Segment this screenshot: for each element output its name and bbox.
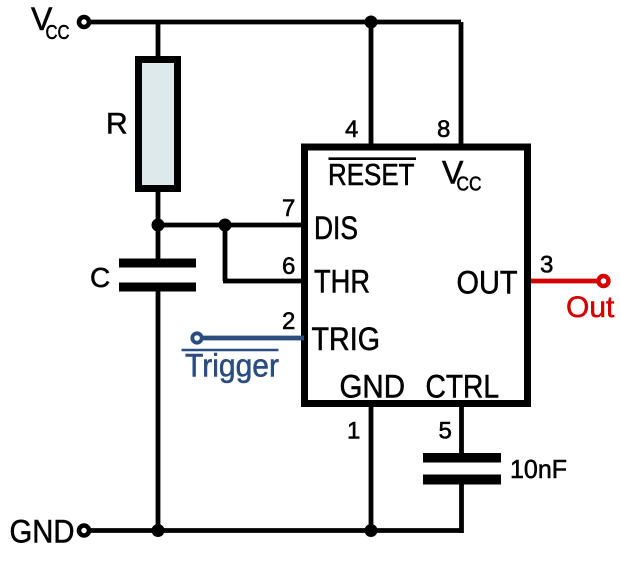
svg-text:R: R: [106, 108, 128, 141]
capacitor C: [119, 259, 196, 292]
svg-text:DIS: DIS: [314, 210, 358, 246]
svg-text:GND: GND: [340, 369, 406, 405]
wire VCC to resistor: [156, 22, 161, 60]
svg-text:THR: THR: [314, 264, 370, 300]
svg-text:RESET: RESET: [328, 158, 415, 192]
wire OUT output: [531, 279, 598, 284]
terminal Out: [599, 276, 609, 286]
node junction top: [365, 16, 378, 29]
node junction R-C: [152, 219, 165, 232]
wire C2 to ground rail: [459, 482, 464, 533]
pin VCC label: [442, 155, 482, 196]
op IC U1 555 box: [305, 147, 528, 404]
svg-text:GND: GND: [10, 514, 75, 550]
svg-text:7: 7: [282, 195, 295, 222]
svg-text:OUT: OUT: [457, 265, 518, 301]
wire pin8 up: [459, 22, 464, 147]
wire DIS: [158, 223, 304, 228]
wire pin4 up: [369, 22, 374, 147]
wire THR: [223, 225, 304, 281]
svg-text:2: 2: [282, 308, 295, 335]
node junction gnd-pin1: [365, 524, 378, 537]
wire TRIG input: [202, 336, 304, 341]
svg-text:Trigger: Trigger: [185, 348, 279, 384]
wire top rail: [91, 20, 461, 25]
wire pin1 down: [369, 403, 374, 531]
resistor R: [139, 60, 178, 189]
node Trigger label: [182, 348, 280, 384]
wire pin5 down: [459, 403, 464, 456]
node VCC label: [31, 1, 70, 44]
svg-text:CC: CC: [457, 173, 482, 196]
svg-text:10nF: 10nF: [510, 454, 567, 484]
terminal GND: [79, 526, 89, 536]
svg-text:TRIG: TRIG: [312, 321, 381, 357]
svg-text:Out: Out: [566, 291, 615, 324]
svg-text:4: 4: [345, 116, 358, 143]
node junction DIS-THR: [219, 219, 232, 232]
wire C to ground rail: [156, 289, 161, 531]
ground rail wire: [91, 528, 462, 533]
svg-text:6: 6: [282, 253, 295, 280]
svg-text:3: 3: [540, 252, 553, 279]
terminal VCC: [79, 17, 89, 27]
wire resistor to node: [156, 188, 161, 261]
svg-text:C: C: [90, 262, 110, 293]
pin RESET label: [328, 158, 416, 192]
svg-text:8: 8: [437, 116, 450, 143]
svg-text:5: 5: [439, 418, 452, 445]
svg-text:CTRL: CTRL: [426, 369, 500, 405]
node junction gnd-C: [152, 524, 165, 537]
terminal Trigger: [192, 333, 201, 342]
capacitor C2 10nF: [423, 453, 501, 485]
svg-text:CC: CC: [46, 21, 70, 44]
svg-text:1: 1: [347, 418, 360, 445]
